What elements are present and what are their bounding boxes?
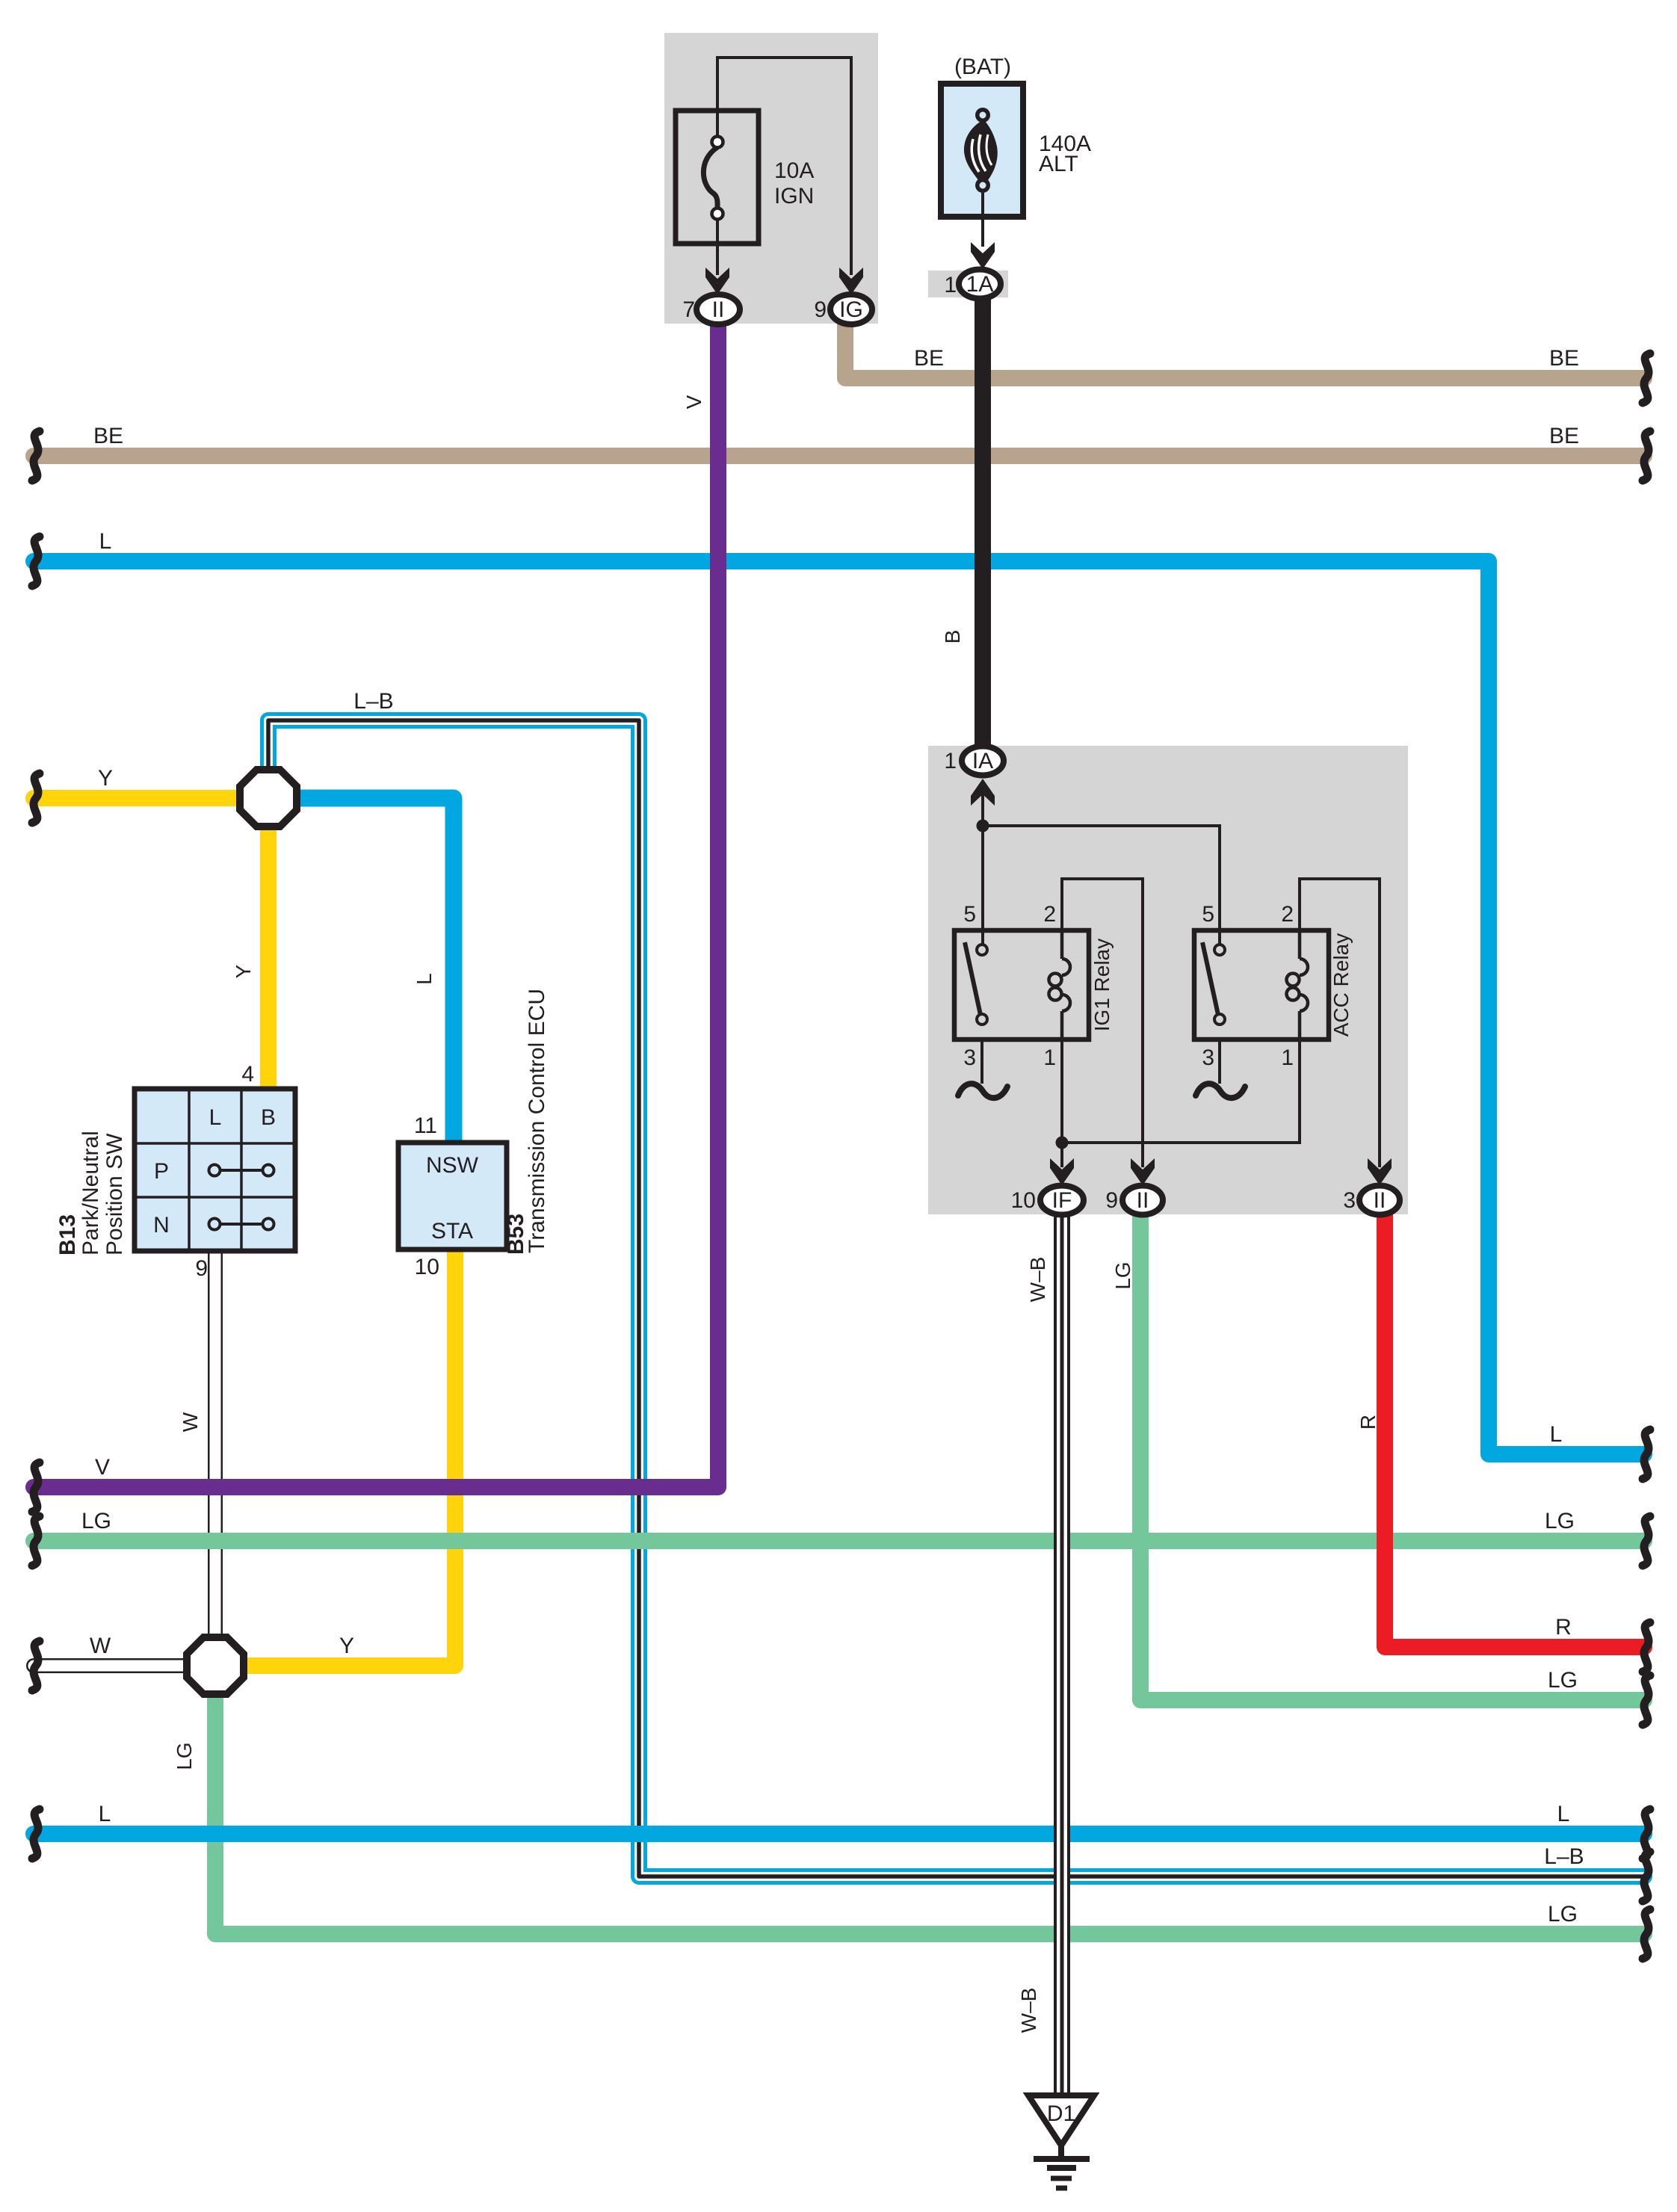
wire junction down to IF [1060,1143,1063,1167]
wire break symbol right LG2 [1643,1675,1650,1725]
wire Y (splice node right then up to ECU pin 10 STA) [239,1246,455,1666]
ground D1 triangle [1028,2095,1094,2145]
wire ACC pin 3 stub [1218,1039,1221,1084]
svg-text:W–B: W–B [1017,1988,1040,2033]
svg-text:LG: LG [1545,1509,1575,1533]
junction dot pin1 [1056,1137,1069,1149]
svg-text:B13: B13 [55,1214,80,1255]
splice node octagon (Y / L-B / L) [240,770,297,827]
svg-text:II: II [1137,1188,1149,1213]
relay IG1 box [954,930,1089,1039]
svg-text:L: L [209,1105,222,1130]
svg-text:1: 1 [944,749,957,773]
wire BE (from connector IG down and right to edge) [845,321,1644,378]
svg-text:9: 9 [195,1256,208,1281]
wire break symbol left BE [32,431,40,481]
wire BE horizontal full width [34,448,1644,464]
Transmission Control ECU B53 box [398,1143,507,1249]
svg-text:(BAT): (BAT) [954,55,1011,79]
svg-text:2: 2 [1281,902,1294,927]
wire W horizontal (left edge to splice node) [34,1658,194,1673]
svg-text:LG: LG [81,1509,111,1533]
svg-text:LG: LG [1548,1902,1578,1927]
svg-text:IG1 Relay: IG1 Relay [1090,939,1114,1032]
wire break symbol right L-B [1643,1852,1650,1901]
svg-text:1: 1 [1281,1045,1294,1070]
ground hatch [1034,2156,1090,2162]
connector oval IG (pin 9) [830,294,872,324]
svg-text:B: B [941,630,964,644]
connector 1A gray band [928,271,1008,297]
connector oval II (pin 7) [697,294,740,324]
svg-text:Y: Y [98,766,113,791]
svg-text:10: 10 [415,1255,439,1279]
svg-text:11: 11 [414,1113,437,1138]
svg-text:II: II [712,297,725,322]
wire fuse IGN lower lead [716,217,719,275]
wire IA to junction [981,792,984,826]
svg-text:LG: LG [173,1742,196,1770]
fusible link element [964,108,998,193]
connector oval II ACC [1359,1186,1400,1215]
wire L horizontal (left edge, right side down, out right edge) [34,561,1644,1454]
svg-text:3: 3 [1343,1188,1356,1213]
svg-text:3: 3 [963,1045,976,1070]
svg-text:IG: IG [839,297,863,322]
svg-text:R: R [1555,1615,1572,1640]
wire break symbol right L [1643,1430,1650,1479]
junction block J/B gray box (10A IGN fuse area) [664,33,878,324]
svg-text:STA: STA [431,1219,473,1244]
svg-text:BE: BE [93,424,123,448]
svg-text:Transmission Control ECU: Transmission Control ECU [525,989,549,1253]
wire break symbol left L bottom [32,1809,40,1859]
svg-text:BE: BE [1549,424,1579,448]
wire break symbol left Y [32,773,40,823]
wire junction to ACC pin 5 [983,826,1220,946]
relay ACC box [1194,930,1329,1039]
svg-text:BE: BE [1549,346,1579,371]
wire V (connector II down then left out left edge) [34,324,718,1487]
arrow into connector II (pin 3) [1368,1158,1392,1185]
svg-text:1A: 1A [966,272,994,297]
contact P row [214,1169,268,1172]
svg-text:D1: D1 [1047,2101,1075,2126]
wire break symbol right BE2 [1643,431,1650,481]
ground stem [1058,2143,1064,2157]
open-end squiggle IG1 pin 3 [958,1084,1007,1098]
svg-text:5: 5 [963,902,976,927]
wire Y vertical (splice node to Park/Neutral SW pin 4) [260,821,277,1092]
svg-text:Park/Neutral: Park/Neutral [78,1131,103,1255]
wire junction to ACC pin 1 [1062,1039,1300,1143]
fuse 10A IGN terminal circle top [712,137,723,148]
svg-text:LG: LG [1548,1668,1578,1693]
fusible link 140A ALT box [941,84,1023,217]
svg-text:9: 9 [814,297,827,322]
relay IG1 coil [1049,930,1071,1039]
wire Y horizontal (left edge to splice node) [34,790,243,806]
svg-text:Position SW: Position SW [102,1133,127,1255]
wire break symbol right LG3 [1643,1909,1650,1959]
connector oval II relay [1122,1186,1163,1215]
wire junction to IG1 pin 5 [981,826,984,946]
wire break symbol left L [32,537,40,586]
wire ALT lead down [981,193,984,247]
arrow into connector IF [1050,1158,1074,1185]
svg-text:II: II [1374,1188,1386,1213]
junction dot [977,820,989,832]
fuse 10A IGN box [676,111,759,244]
ignition switch assembly gray box (IG1/ACC relays) [928,746,1408,1214]
wire L horizontal bottom full width [34,1826,1644,1842]
svg-text:9: 9 [1105,1188,1118,1213]
svg-text:L–B: L–B [1544,1844,1584,1869]
svg-text:L: L [1550,1422,1563,1447]
svg-text:R: R [1356,1415,1380,1430]
svg-text:BE: BE [914,346,944,371]
svg-text:5: 5 [1202,902,1214,927]
contact N row [214,1223,268,1226]
connector oval IA (pin 1) [962,747,1004,776]
wire IG1 pin 3 stub [980,1039,983,1084]
svg-text:V: V [682,395,705,409]
svg-text:LG: LG [1111,1261,1134,1289]
wire IG1 pin 1 down to junction [1060,1039,1063,1143]
wire break symbol right L bottom [1643,1809,1650,1859]
svg-text:L: L [99,1802,111,1826]
wire R (ACC connector II down then right out right edge) [1385,1212,1644,1647]
svg-text:4: 4 [241,1062,254,1087]
open-end squiggle ACC pin 3 [1196,1084,1245,1098]
svg-text:W: W [90,1634,111,1658]
fuse 10A IGN terminal circle bottom [712,208,723,220]
arrow into connector II [705,268,729,294]
svg-text:3: 3 [1202,1045,1214,1070]
relay ACC coil [1287,930,1309,1039]
arrow into connector IG [839,268,863,294]
svg-text:W: W [179,1412,202,1432]
Park/Neutral Position SW B13 box [135,1089,295,1251]
svg-text:1: 1 [944,273,957,297]
splice node octagon (W / Y / LG) [187,1637,244,1694]
svg-text:10: 10 [1011,1188,1036,1213]
svg-text:P: P [154,1159,169,1184]
wire LG (relay connector II down then right out right edge) [1140,1212,1644,1700]
svg-text:L: L [99,529,112,554]
svg-text:V: V [95,1455,110,1480]
svg-text:ACC Relay: ACC Relay [1329,933,1353,1037]
wire W vertical (Park/Neutral SW pin 9 to splice node) [208,1251,223,1641]
svg-text:B: B [261,1105,276,1130]
svg-text:IA: IA [972,749,993,773]
svg-text:ALT: ALT [1039,152,1078,176]
svg-text:W–B: W–B [1026,1257,1049,1303]
wire break symbol left V [32,1462,40,1512]
wire L cyan (splice node right then down to ECU pin 11 NSW) [294,798,454,1146]
svg-text:IGN: IGN [774,184,814,208]
wire ACC pin 2 up over to II [1300,879,1380,1167]
svg-text:L: L [1557,1802,1570,1826]
svg-text:N: N [153,1213,170,1238]
svg-text:IF: IF [1052,1188,1072,1213]
wire break symbol right BE1 [1643,353,1650,403]
arrow up into connector IA [971,779,995,806]
svg-text:Y: Y [339,1634,354,1658]
connector oval IF [1040,1186,1084,1215]
svg-text:NSW: NSW [426,1153,479,1178]
wire L-B (splice node up, across, down and out right edge) [268,720,1644,1876]
connector oval 1A [959,270,1001,299]
wire break symbol right LG [1643,1516,1650,1566]
svg-text:10A: 10A [774,158,814,183]
wire internal junction block (to fuse IGN and connector IG) [717,58,851,275]
wire break symbol left LG [32,1516,40,1566]
wire break symbol right R [1643,1622,1650,1672]
svg-text:7: 7 [682,297,695,322]
wire LG horizontal full width [34,1533,1644,1549]
wire break symbol left W [32,1641,40,1690]
wire W-B (connector IF down to ground D1) [1054,1212,1070,2095]
svg-text:Y: Y [232,964,255,978]
wire IG1 pin 2 up over to II [1062,879,1143,1167]
arrow into connector 1A [971,242,995,269]
relay ACC switch [1202,942,1218,1015]
wire LG (splice node down then right out bottom edge) [215,1690,1644,1934]
svg-text:L–B: L–B [353,689,393,714]
arrow into connector II (pin 9) [1131,1158,1155,1185]
svg-text:2: 2 [1043,902,1056,927]
fuse 10A IGN element S-curve [703,147,717,208]
relay IG1 switch [965,942,980,1015]
svg-text:L: L [413,973,436,985]
wire B (connector 1A down to connector IA) [975,296,991,750]
svg-text:1: 1 [1043,1045,1056,1070]
